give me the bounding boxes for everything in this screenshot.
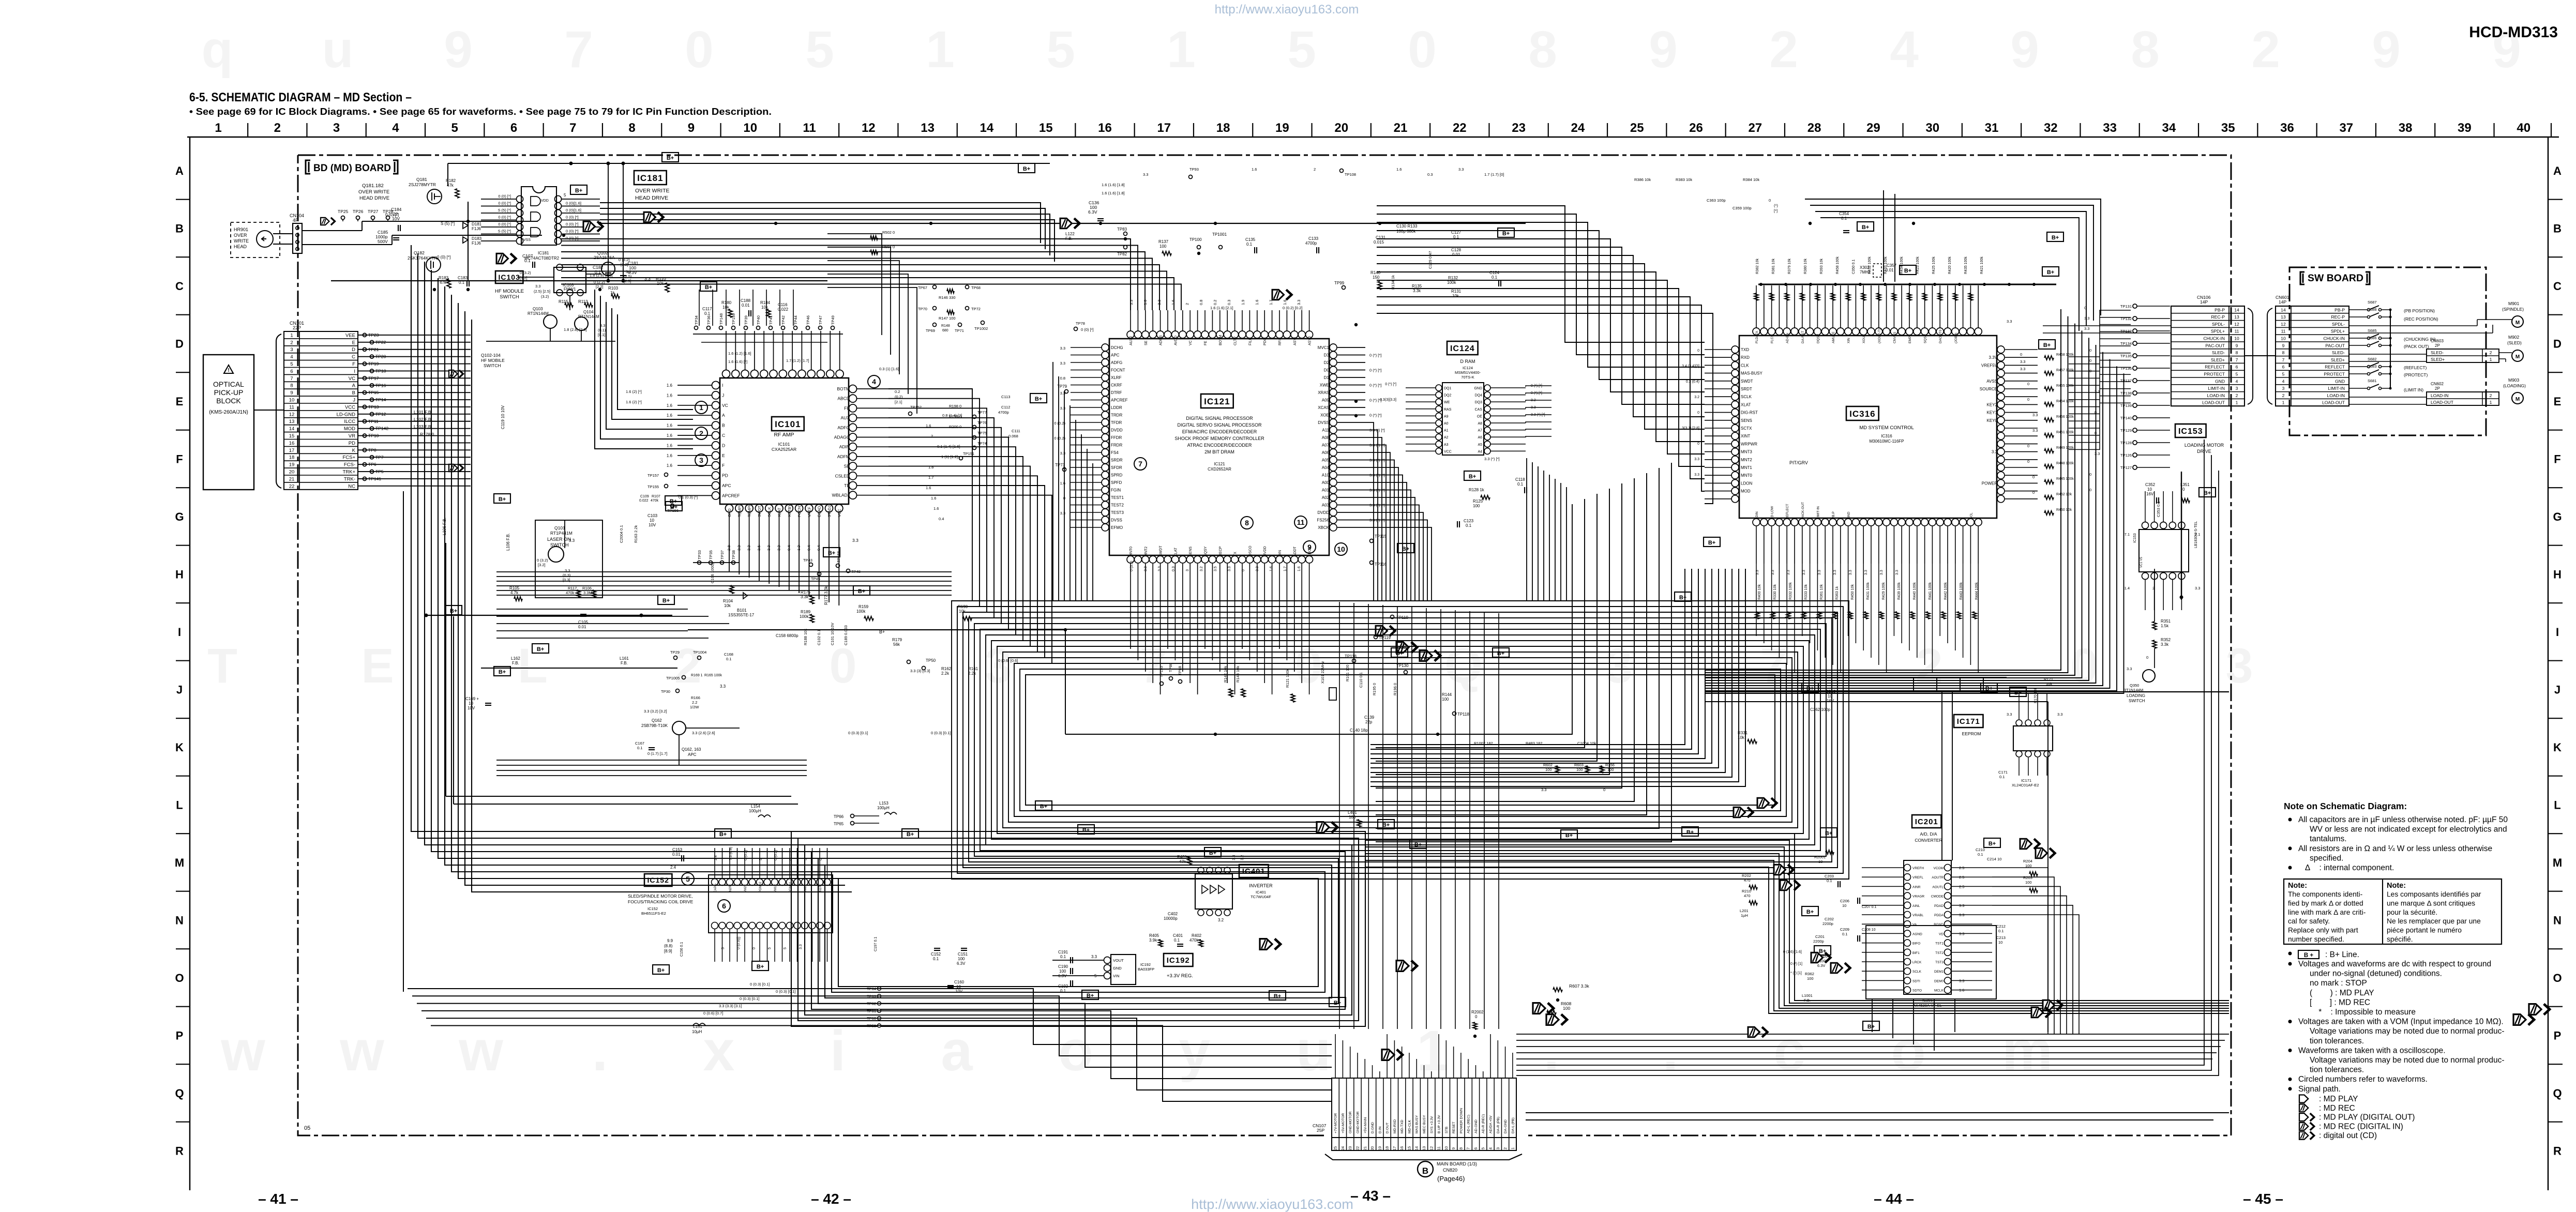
svg-text:TP10: TP10 <box>368 433 379 438</box>
svg-text:R147 100: R147 100 <box>939 316 956 321</box>
svg-text:6.3V: 6.3V <box>1817 963 1825 968</box>
svg-text:under no-signal (detuned) cond: under no-signal (detuned) conditions. <box>2310 969 2442 978</box>
svg-text:B+: B+ <box>1989 841 1996 847</box>
svg-text:TFDR: TFDR <box>1111 420 1122 425</box>
svg-text:2: 2 <box>1503 1147 1508 1149</box>
notes bullet signal path <box>2288 1087 2292 1090</box>
svg-text:R429 100k: R429 100k <box>1882 582 1886 600</box>
svg-text:C153: C153 <box>672 847 683 852</box>
svg-text:4: 4 <box>1488 1147 1493 1149</box>
svg-text:GND-MOTOR: GND-MOTOR <box>1349 1111 1352 1133</box>
svg-text:DQ1: DQ1 <box>1444 387 1452 390</box>
svg-text:3.3: 3.3 <box>852 538 858 543</box>
svg-text:R189: R189 <box>801 610 811 614</box>
svg-text:7: 7 <box>2282 357 2285 362</box>
svg-text:0.1: 0.1 <box>524 258 531 263</box>
svg-text:R401: R401 <box>1177 855 1187 859</box>
svg-text:23: 23 <box>1348 1146 1352 1150</box>
svg-text:R105: R105 <box>509 586 520 590</box>
svg-text:CNVSS: CNVSS <box>1893 331 1896 343</box>
svg-text:C109: C109 <box>640 495 649 498</box>
svg-text:10k: 10k <box>1452 294 1459 298</box>
svg-text:D: D <box>175 338 184 351</box>
svg-text:15: 15 <box>1039 121 1053 135</box>
svg-text:C197 0.1: C197 0.1 <box>874 936 878 951</box>
svg-text:R420 100k: R420 100k <box>1948 256 1952 274</box>
svg-text:TP19: TP19 <box>368 361 379 367</box>
transistor Q350 loading switch <box>2143 670 2155 682</box>
svg-text:R: R <box>175 1145 184 1158</box>
svg-text:SLED+: SLED+ <box>2211 357 2225 362</box>
test points APC area <box>674 656 677 660</box>
svg-text:TP14: TP14 <box>375 397 386 402</box>
svg-text:10: 10 <box>2281 336 2286 341</box>
svg-text:ILCC: ILCC <box>344 419 355 425</box>
svg-text:http://www.xiaoyu163.com: http://www.xiaoyu163.com <box>1215 3 1359 17</box>
svg-text:CONVERTER: CONVERTER <box>1915 838 1942 843</box>
svg-text:3.3: 3.3 <box>799 944 803 949</box>
svg-text:AINL: AINL <box>1912 904 1920 908</box>
svg-text:Voltages and waveforms are dc: Voltages and waveforms are dc with respe… <box>2298 960 2491 968</box>
svg-text:All capacitors are in µF unles: All capacitors are in µF unless otherwis… <box>2298 815 2508 824</box>
svg-text:TX: TX <box>1234 552 1238 556</box>
wire bus corners IC316 down-left <box>1370 569 1745 786</box>
svg-text:3.3: 3.3 <box>2032 413 2038 417</box>
svg-text:TRK-: TRK- <box>344 476 355 482</box>
svg-text:26: 26 <box>1689 121 1703 135</box>
svg-text:C201: C201 <box>1815 934 1825 939</box>
svg-text:R140: R140 <box>1370 270 1381 275</box>
svg-text:3.3: 3.3 <box>2057 712 2062 717</box>
svg-text:DQSY: DQSY <box>1816 334 1820 343</box>
signal chevrons IC181 <box>496 253 508 264</box>
svg-text:DTRF: DTRF <box>1111 390 1122 395</box>
svg-text:IC192: IC192 <box>1167 956 1190 965</box>
svg-text:(Page46): (Page46) <box>1437 1175 1465 1183</box>
svg-text:0.1: 0.1 <box>1978 852 1983 857</box>
svg-text:Note on Schematic Diagram:: Note on Schematic Diagram: <box>2284 801 2407 811</box>
svg-text:R455 100k: R455 100k <box>2056 384 2074 388</box>
svg-text:R607 3.3k: R607 3.3k <box>1569 983 1589 989</box>
notes bullet oscilloscope <box>2288 1049 2292 1052</box>
svg-text:SWDT: SWDT <box>757 506 762 517</box>
svg-text:3: 3 <box>1186 569 1189 571</box>
svg-text:R161: R161 <box>968 666 978 671</box>
svg-text:100k: 100k <box>856 609 866 614</box>
svg-text:IC124: IC124 <box>1463 366 1473 370</box>
svg-text:H: H <box>2553 568 2562 581</box>
svg-text:C: C <box>352 354 355 360</box>
svg-text:0.1: 0.1 <box>704 311 711 316</box>
svg-text:ADFM: ADFM <box>837 454 850 459</box>
svg-text:2SJ278MYTR: 2SJ278MYTR <box>409 182 436 187</box>
IC121 left pin column <box>1102 344 1109 351</box>
svg-text:0.015: 0.015 <box>1374 240 1384 245</box>
svg-text:3.3: 3.3 <box>1959 913 1964 917</box>
svg-text:1.6: 1.6 <box>667 413 673 418</box>
svg-text:A: A <box>352 383 356 389</box>
svg-text:R421 100k: R421 100k <box>1980 256 1984 274</box>
svg-text:8: 8 <box>2282 350 2285 355</box>
svg-text:1.6: 1.6 <box>1171 300 1176 305</box>
svg-text:0 (0)[1.6]: 0 (0)[1.6] <box>566 208 581 213</box>
brace right of CN106 <box>2248 308 2253 404</box>
svg-text:L102 F.B.: L102 F.B. <box>414 417 432 422</box>
svg-text:A06: A06 <box>1322 450 1330 455</box>
svg-text:EFMO: EFMO <box>1111 525 1123 530</box>
svg-text:0: 0 <box>2032 475 2035 479</box>
svg-text:FLDATA: FLDATA <box>1755 330 1759 343</box>
svg-text:R169 1: R169 1 <box>691 674 703 677</box>
svg-text:7: 7 <box>290 376 293 382</box>
svg-text:K: K <box>2553 741 2562 754</box>
svg-text:PAC-OUT: PAC-OUT <box>2325 343 2345 348</box>
svg-text:0: 0 <box>1603 787 1605 792</box>
svg-text:C112: C112 <box>1001 405 1010 410</box>
svg-text:M902: M902 <box>2508 335 2520 340</box>
notes bullet VOM <box>2288 1020 2292 1023</box>
svg-text:TP141: TP141 <box>368 476 381 481</box>
svg-text:R117: R117 <box>568 586 577 590</box>
svg-text:IC181: IC181 <box>538 251 549 255</box>
svg-text:R121 100k: R121 100k <box>1285 669 1290 688</box>
resistors R502 R504 <box>870 236 878 240</box>
svg-text:I: I <box>178 626 181 639</box>
svg-text:5: 5 <box>784 947 787 949</box>
svg-text:DIGITAL SERVO SIGNAL PROCESSOR: DIGITAL SERVO SIGNAL PROCESSOR <box>1177 422 1262 428</box>
svg-text:0: 0 <box>2089 348 2091 353</box>
svg-text:(0.1): (0.1) <box>598 328 606 332</box>
svg-text:2M BIT DRAM: 2M BIT DRAM <box>1204 449 1234 454</box>
svg-text:R431 100k: R431 100k <box>1866 582 1870 600</box>
svg-text:R386 10k: R386 10k <box>1634 177 1651 182</box>
svg-text:10V: 10V <box>649 523 656 527</box>
svg-text:L151: L151 <box>693 1024 702 1029</box>
svg-text:0 (0.3) [0.1]: 0 (0.3) [0.1] <box>848 731 868 735</box>
svg-text:0.1: 0.1 <box>1492 275 1498 280</box>
svg-text:10V: 10V <box>468 706 475 710</box>
svg-text:TP159: TP159 <box>731 313 736 325</box>
svg-text:TP22: TP22 <box>375 340 386 345</box>
svg-text:CLK: CLK <box>1741 363 1749 368</box>
svg-text:33: 33 <box>2103 121 2117 135</box>
svg-text:TP75: TP75 <box>977 431 987 435</box>
svg-text:TP148: TP148 <box>719 313 724 325</box>
svg-text:L153: L153 <box>879 801 888 806</box>
svg-text:3.3: 3.3 <box>1880 570 1884 575</box>
svg-text:0 (*) [*]: 0 (*) [*] <box>1385 383 1396 386</box>
svg-text:EMP: EMP <box>1908 336 1912 343</box>
svg-text:C353 0.1: C353 0.1 <box>2156 502 2161 517</box>
svg-text:IC152: IC152 <box>647 876 669 884</box>
svg-text:TP78: TP78 <box>1076 321 1085 326</box>
svg-text:SLED-: SLED- <box>2431 350 2444 355</box>
svg-text:1: 1 <box>2282 400 2285 405</box>
svg-text:0: 0 <box>1697 349 1699 353</box>
svg-text:2SB79B-T10K: 2SB79B-T10K <box>641 723 668 728</box>
B+ labels bottom area <box>1329 997 1346 1007</box>
svg-text:0.3: 0.3 <box>1427 172 1433 177</box>
svg-text:23: 23 <box>1512 121 1526 135</box>
svg-text:IC153: IC153 <box>2178 427 2203 436</box>
svg-text:• See page 69 for IC Block Dia: • See page 69 for IC Block Diagrams. • S… <box>189 107 772 117</box>
svg-text:C189 0.033: C189 0.033 <box>843 625 848 645</box>
svg-text:100: 100 <box>1576 767 1583 772</box>
svg-text:0.1: 0.1 <box>1060 955 1066 959</box>
svg-text:4P: 4P <box>293 218 298 223</box>
svg-text:0.01: 0.01 <box>742 303 750 308</box>
svg-text:E: E <box>361 639 394 693</box>
svg-text:TP73: TP73 <box>1055 463 1065 467</box>
svg-text:FMW1: FMW1 <box>564 287 576 292</box>
IC316 body <box>1739 336 1997 518</box>
svg-text:35: 35 <box>2221 121 2235 135</box>
svg-text:C130 R133: C130 R133 <box>1396 224 1418 229</box>
svg-text:BD (MD) BOARD: BD (MD) BOARD <box>313 163 391 174</box>
svg-text:100k: 100k <box>800 614 809 619</box>
svg-text:i: i <box>830 1019 846 1083</box>
svg-text:3.3: 3.3 <box>569 538 575 543</box>
B+ labels IC101 area <box>665 496 682 505</box>
svg-text:R379 10k: R379 10k <box>1788 259 1791 274</box>
svg-text:0.1: 0.1 <box>637 746 642 750</box>
svg-text:TP156: TP156 <box>667 508 679 513</box>
svg-text:1 (1) [1.2]: 1 (1) [1.2] <box>941 454 958 459</box>
svg-text:20: 20 <box>1370 1146 1375 1150</box>
svg-text:B+: B+ <box>1023 166 1030 172</box>
svg-text:31: 31 <box>1985 121 1999 135</box>
svg-text:B+: B+ <box>1904 268 1911 274</box>
svg-text:C208 10: C208 10 <box>1862 928 1876 932</box>
svg-text:R405: R405 <box>1149 933 1159 938</box>
svg-text:16V: 16V <box>1827 699 1834 703</box>
svg-text:3.3: 3.3 <box>1129 300 1134 305</box>
IC152 body <box>709 875 833 933</box>
svg-text:5: 5 <box>721 947 725 949</box>
svg-text:1.6: 1.6 <box>667 453 673 458</box>
svg-text:0.1: 0.1 <box>1060 989 1066 993</box>
svg-text:w: w <box>458 1019 503 1083</box>
svg-text:3.3: 3.3 <box>1849 570 1852 575</box>
svg-text:XSTBY: XSTBY <box>787 504 792 517</box>
svg-text:A11: A11 <box>1322 428 1329 433</box>
svg-text:KEY0: KEY0 <box>1987 418 1998 423</box>
svg-text:VR: VR <box>349 433 355 439</box>
svg-text:AINR: AINR <box>1912 885 1921 889</box>
svg-text:X101 22MHz: X101 22MHz <box>1320 661 1325 684</box>
svg-text:F: F <box>2554 453 2560 466</box>
svg-text:R502 0: R502 0 <box>882 230 895 235</box>
svg-text:SFDR: SFDR <box>1111 465 1122 470</box>
over write head circle <box>257 231 273 247</box>
svg-text:3.3: 3.3 <box>1818 570 1821 575</box>
svg-text:4: 4 <box>2282 378 2285 384</box>
svg-text:C128: C128 <box>1451 248 1462 252</box>
svg-text:C401: C401 <box>1173 933 1183 938</box>
signal chevron head drive <box>321 218 329 225</box>
svg-text:SWITCH: SWITCH <box>484 363 501 368</box>
svg-text:DIG-RST: DIG-RST <box>1741 411 1758 415</box>
svg-text:R458 100k: R458 100k <box>1836 256 1840 274</box>
svg-text:PACK-OUT: PACK-OUT <box>1801 502 1805 519</box>
svg-text:tion tolerances.: tion tolerances. <box>2310 1037 2364 1046</box>
svg-text:10: 10 <box>1998 940 2002 945</box>
svg-text:Note:: Note: <box>2288 882 2307 890</box>
svg-text:SPDL-: SPDL- <box>2332 322 2345 327</box>
svg-text:APC: APC <box>722 483 731 488</box>
svg-text:13: 13 <box>2234 314 2239 320</box>
svg-text:1.6 (1.6) [*]: 1.6 (1.6) [*] <box>728 359 747 364</box>
svg-text:(*): (*) <box>1774 203 1778 208</box>
svg-text:IC121: IC121 <box>1204 397 1230 406</box>
svg-text:TP5: TP5 <box>375 469 384 474</box>
svg-text:TRDR: TRDR <box>1111 413 1122 418</box>
svg-text:3.2: 3.2 <box>1240 855 1244 860</box>
svg-text:6.3V: 6.3V <box>1088 209 1097 215</box>
svg-text:B+: B+ <box>499 669 506 675</box>
svg-text:0 (0.2): 0 (0.2) <box>744 850 748 860</box>
svg-text:Q162: Q162 <box>652 718 662 723</box>
svg-text:470k: 470k <box>651 499 659 503</box>
svg-text:3(3.1) [2.8]: 3(3.1) [2.8] <box>1682 427 1699 430</box>
svg-text:C116: C116 <box>778 302 788 307</box>
svg-text:(REFLECT): (REFLECT) <box>2404 365 2427 370</box>
svg-text:MD-TXD: MD-TXD <box>1400 1119 1404 1133</box>
svg-text:B+: B+ <box>1087 993 1094 999</box>
svg-text:10k: 10k <box>657 281 664 286</box>
wire verticals below IC316 going down <box>1756 564 1978 672</box>
svg-text:0: 0 <box>1242 569 1245 571</box>
svg-text:REC-P: REC-P <box>2331 314 2345 320</box>
svg-text:9: 9 <box>688 121 695 135</box>
svg-text:IC121: IC121 <box>1214 462 1225 466</box>
svg-text:B+: B+ <box>657 967 665 974</box>
svg-text:100: 100 <box>1607 767 1614 772</box>
svg-text:5: 5 <box>804 858 808 860</box>
svg-text:4700p: 4700p <box>998 410 1009 415</box>
svg-text:3.3: 3.3 <box>2095 389 2100 394</box>
svg-text:TP86: TP86 <box>1168 663 1173 672</box>
svg-text:0.068: 0.068 <box>1008 434 1018 438</box>
brace left of CN101 <box>276 334 281 488</box>
svg-text:D2: D2 <box>1324 360 1330 365</box>
svg-text:TP83: TP83 <box>1117 227 1127 232</box>
svg-text:tantalums.: tantalums. <box>2310 835 2347 843</box>
svg-text:5: 5 <box>805 21 834 79</box>
svg-text:J: J <box>353 398 355 403</box>
wire bottom rail IC101 region <box>688 629 1065 630</box>
svg-text:STB: STB <box>1445 1126 1449 1133</box>
test points below IC101 <box>698 561 701 565</box>
svg-text:TP36: TP36 <box>706 315 711 325</box>
svg-text:TP37: TP37 <box>720 550 725 559</box>
svg-text:C183: C183 <box>458 276 468 280</box>
svg-text:AD/DA +5V: AD/DA +5V <box>1489 1115 1493 1133</box>
svg-text:2.4: 2.4 <box>670 865 676 870</box>
svg-text:B+: B+ <box>1396 650 1403 657</box>
svg-text:XOE: XOE <box>1320 413 1329 418</box>
wires IC103 interconnect <box>517 277 554 278</box>
svg-text:VRABL: VRABL <box>1912 914 1924 917</box>
svg-text:0: 0 <box>1697 442 1699 446</box>
svg-text:[2.5]: [2.5] <box>624 279 631 283</box>
svg-text:C206: C206 <box>1840 899 1849 903</box>
svg-text:A8: A8 <box>1478 422 1482 426</box>
svg-text:680: 680 <box>942 329 948 332</box>
svg-text:R107: R107 <box>652 495 660 498</box>
svg-text:TP7: TP7 <box>375 454 384 460</box>
wire verticals IC316 rail down to bottom bundle <box>1914 677 2048 1032</box>
svg-text:3.3: 3.3 <box>2020 359 2025 364</box>
svg-text:pour la sécurité.: pour la sécurité. <box>2387 908 2437 916</box>
svg-text:TP100: TP100 <box>1189 237 1202 242</box>
svg-text:C363 100p: C363 100p <box>1707 198 1726 203</box>
svg-text:3.3 (2.6) [2.6]: 3.3 (2.6) [2.6] <box>692 731 715 735</box>
svg-text:0.3 (0.4): 0.3 (0.4) <box>1686 380 1699 384</box>
test point column TP59-TP64 with staircase to CN107 <box>878 987 881 991</box>
svg-text:SPDL-: SPDL- <box>2212 322 2225 327</box>
svg-text:R442 100k: R442 100k <box>1944 582 1948 600</box>
svg-text:C190: C190 <box>1058 964 1068 969</box>
svg-text:Voltage variations may be note: Voltage variations may be noted due to n… <box>2310 1027 2505 1036</box>
svg-text:14: 14 <box>980 121 994 135</box>
svg-text:spécifié.: spécifié. <box>2387 935 2413 943</box>
svg-text:C191: C191 <box>1058 950 1068 955</box>
svg-text:R204: R204 <box>2023 859 2032 863</box>
svg-text:12: 12 <box>289 412 295 417</box>
svg-text:1.5k: 1.5k <box>2161 624 2169 628</box>
svg-text:LRCK: LRCK <box>1912 961 1922 964</box>
svg-text:TP1004: TP1004 <box>693 650 706 655</box>
svg-text:XINT: XINT <box>1741 434 1750 438</box>
svg-text:SWITCH: SWITCH <box>500 294 519 300</box>
svg-text:EQADJ: EQADJ <box>817 504 822 517</box>
svg-text:C133: C133 <box>1308 236 1319 241</box>
svg-text:[0.1]: [0.1] <box>598 332 606 337</box>
svg-text:12: 12 <box>2234 322 2239 327</box>
svg-text:C210: C210 <box>1976 847 1985 852</box>
svg-text:KEY2: KEY2 <box>1987 402 1998 407</box>
IC101 top pins <box>722 370 730 378</box>
svg-text:FOCNT: FOCNT <box>797 504 802 517</box>
svg-text:M: M <box>2515 354 2520 360</box>
svg-text:(LIMIT IN): (LIMIT IN) <box>2404 387 2423 392</box>
svg-text:2P: 2P <box>2435 343 2440 348</box>
svg-text:0.3 (1) [1.6]: 0.3 (1) [1.6] <box>879 367 899 371</box>
wire bus bottom right of connector <box>1516 1034 2229 1059</box>
svg-text:SW BOARD: SW BOARD <box>2308 273 2363 284</box>
svg-text:0 (0) [*]: 0 (0) [*] <box>566 229 579 234</box>
svg-text:CXD2652AR: CXD2652AR <box>1208 467 1231 472</box>
svg-text:SQSY: SQSY <box>1924 334 1927 343</box>
svg-text:7MHz: 7MHz <box>1860 270 1871 275</box>
svg-text:3.3(3)[3.3]: 3.3(3)[3.3] <box>1380 398 1396 402</box>
svg-text:WE: WE <box>1444 401 1450 404</box>
svg-text:1.7 (1.2) [1.7]: 1.7 (1.2) [1.7] <box>786 358 809 363</box>
svg-text:5: 5 <box>1287 21 1316 79</box>
svg-text:HR901: HR901 <box>234 227 248 232</box>
svg-text:1.6: 1.6 <box>1283 300 1287 305</box>
svg-text:7: 7 <box>1466 1147 1471 1149</box>
svg-text:7.1: 7.1 <box>2125 532 2130 537</box>
svg-text:7: 7 <box>564 21 593 79</box>
svg-text:SLED+: SLED+ <box>2431 357 2445 362</box>
svg-text:10V: 10V <box>955 989 963 994</box>
svg-text:VIN: VIN <box>1113 974 1120 978</box>
diode D181 F1J6 <box>463 222 468 229</box>
svg-text:POWER DOWN: POWER DOWN <box>1459 1108 1463 1133</box>
IC101 left pins <box>712 382 720 389</box>
